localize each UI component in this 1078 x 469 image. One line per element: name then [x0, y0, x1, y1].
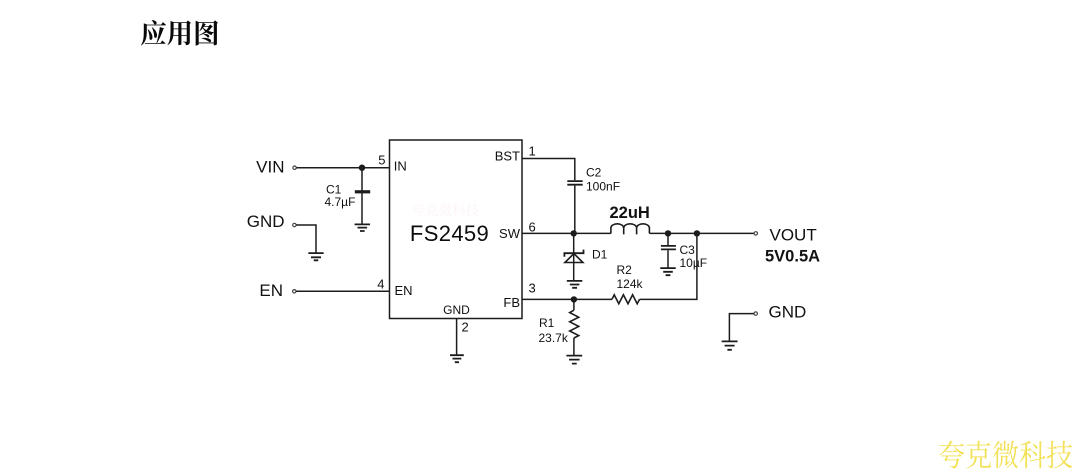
op-amp U1 FS2459 IC body: [390, 140, 523, 319]
svg-text:D1: D1: [592, 248, 608, 262]
svg-text:100nF: 100nF: [586, 180, 620, 194]
svg-text:R2: R2: [617, 263, 633, 277]
svg-text:22uH: 22uH: [610, 204, 650, 222]
terminal VIN: [293, 166, 296, 169]
terminal GND right: [754, 312, 757, 315]
terminal GND left: [293, 223, 296, 226]
svg-text:VOUT: VOUT: [770, 226, 817, 245]
svg-text:GND: GND: [443, 303, 470, 317]
inductor L1 22uH: [611, 224, 650, 235]
wire GND left: [296, 225, 316, 253]
title text 应用图: [141, 20, 218, 46]
wire R2 to divider node: [640, 298, 697, 300]
svg-text:IN: IN: [394, 159, 407, 174]
svg-text:GND: GND: [769, 303, 807, 322]
wire L1 to VOUT: [649, 232, 754, 234]
wire EN to EN pin: [296, 290, 389, 292]
capacitor C3: [667, 233, 669, 245]
svg-text:GND: GND: [247, 212, 285, 231]
svg-text:2: 2: [462, 320, 469, 335]
svg-text:FS2459: FS2459: [410, 221, 489, 246]
svg-text:R1: R1: [539, 316, 555, 330]
wire divider to VOUT node: [696, 233, 698, 300]
faint watermark inside IC: [412, 203, 479, 217]
svg-text:10µF: 10µF: [680, 256, 708, 270]
wire SW pin 6: [522, 232, 611, 234]
svg-text:BST: BST: [495, 149, 520, 164]
svg-text:EN: EN: [395, 283, 413, 298]
svg-text:4: 4: [377, 277, 384, 292]
capacitor C2: [567, 181, 582, 185]
junction node VIN/C1: [359, 165, 365, 171]
terminal VOUT: [754, 232, 757, 235]
svg-text:124k: 124k: [617, 277, 644, 291]
svg-text:5: 5: [378, 153, 385, 168]
watermark text 夸克微科技: [939, 440, 1072, 468]
ground under D1: [567, 281, 583, 288]
svg-text:3: 3: [529, 281, 536, 296]
wire VIN to IN pin: [296, 167, 389, 169]
svg-text:SW: SW: [499, 226, 521, 241]
svg-text:VIN: VIN: [256, 158, 284, 177]
junction node C3: [665, 230, 671, 236]
svg-text:5V0.5A: 5V0.5A: [765, 248, 820, 266]
wire FB pin 3: [522, 298, 612, 300]
ground symbol right: [722, 341, 738, 349]
svg-text:1: 1: [529, 144, 536, 159]
wire BST pin 1 to C2: [522, 159, 575, 181]
svg-text:23.7k: 23.7k: [539, 331, 569, 345]
svg-text:EN: EN: [259, 281, 283, 300]
ground under R1: [566, 356, 582, 364]
ground under C1: [355, 224, 371, 231]
junction node FB/R1: [571, 296, 577, 302]
terminal EN: [293, 290, 296, 293]
svg-text:C3: C3: [680, 243, 696, 257]
ground under pin 2: [450, 355, 464, 362]
junction node FB divider: [694, 230, 700, 236]
wire GND right: [729, 314, 754, 341]
svg-text:6: 6: [529, 220, 536, 235]
capacitor C1: [361, 168, 363, 224]
resistor R2 124k: [612, 295, 640, 304]
diode D1 schottky: [573, 233, 575, 280]
wire pin 2 to ground: [456, 319, 458, 355]
resistor R1 23.7k: [573, 299, 575, 310]
svg-text:C2: C2: [586, 166, 602, 180]
wire C2 to SW node: [574, 186, 576, 234]
junction node SW/D1: [571, 230, 577, 236]
ground under C3: [660, 268, 676, 275]
svg-text:FB: FB: [503, 295, 520, 310]
svg-text:4.7µF: 4.7µF: [325, 195, 356, 209]
ground symbol left: [308, 253, 323, 260]
